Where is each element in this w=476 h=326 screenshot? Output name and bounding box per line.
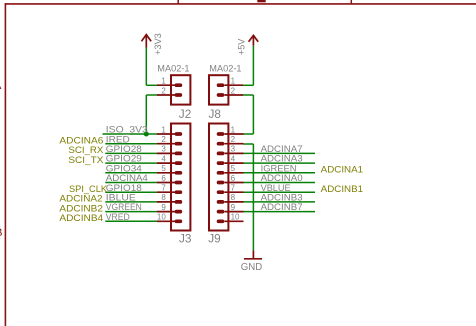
junction ISO_3V3 (144, 132, 149, 137)
svg-text:GPIO29: GPIO29 (106, 154, 142, 164)
svg-text:1: 1 (161, 77, 166, 86)
wire net ADCINB3 (243, 201, 315, 203)
pin 1 J8 pad (217, 83, 225, 87)
wire net ADCINA0 (243, 182, 315, 184)
svg-text:ADCINB1: ADCINB1 (321, 184, 363, 194)
pin 6 J3 pad (175, 181, 183, 185)
wire net ADCINA7 (243, 152, 315, 154)
wire ISO_3V3 vertical (145, 95, 147, 134)
wire J8 pin2 (243, 94, 253, 96)
svg-text:2: 2 (161, 86, 166, 95)
connector J8 body (209, 75, 228, 104)
svg-text:GPIO34: GPIO34 (106, 163, 142, 173)
svg-text:ADCINA0: ADCINA0 (261, 173, 303, 183)
svg-text:IBLUE: IBLUE (106, 193, 136, 203)
svg-text:+5V: +5V (236, 38, 246, 55)
pin 8 J9 pad (217, 200, 225, 204)
svg-text:2: 2 (231, 86, 236, 95)
wire net ADCINA3 (243, 162, 315, 164)
pin 5 J3 stub (157, 172, 175, 174)
svg-text:IGREEN: IGREEN (261, 163, 297, 173)
pin 4 J9 stub (224, 162, 243, 164)
pin 2 J8 pad (217, 93, 225, 97)
pin 4 J3 stub (157, 162, 175, 164)
svg-text:GPIO28: GPIO28 (106, 144, 142, 154)
pin 5 J9 stub (224, 172, 243, 174)
svg-text:B: B (0, 227, 2, 239)
pin 1 J3 pad (175, 132, 183, 136)
pin 1 J9 stub (224, 133, 243, 135)
pin 3 J3 pad (175, 152, 183, 156)
pin 7 J9 stub (224, 191, 243, 193)
svg-text:MA02-1: MA02-1 (157, 64, 189, 74)
svg-text:VGREEN: VGREEN (106, 202, 142, 212)
pin 8 J3 pad (175, 200, 183, 204)
connector J9 body (209, 124, 228, 231)
svg-text:8: 8 (161, 193, 166, 202)
wire +3V3 vertical (145, 48, 147, 86)
pin 2 J8 stub (224, 94, 243, 96)
pin 5 J9 pad (217, 171, 225, 175)
svg-text:1: 1 (231, 77, 236, 86)
pin 8 J3 stub (157, 201, 175, 203)
pin 1 J2 pad (175, 83, 183, 87)
pin 6 J9 pad (217, 181, 225, 185)
svg-text:10: 10 (157, 213, 166, 222)
wire net ADCINA4 (105, 182, 157, 184)
pin 2 J9 pad (217, 142, 225, 146)
pin 2 J3 pad (175, 142, 183, 146)
svg-text:ADCINA6: ADCINA6 (59, 135, 103, 145)
pin 3 J9 pad (217, 152, 225, 156)
pin 5 J3 pad (175, 171, 183, 175)
pin 4 J9 pad (217, 161, 225, 165)
svg-text:ADCINA3: ADCINA3 (261, 154, 303, 164)
svg-text:ADCINB4: ADCINB4 (59, 213, 103, 223)
svg-text:7: 7 (231, 184, 236, 193)
pin 2 J3 stub (157, 143, 175, 145)
pin 2 J2 stub (157, 94, 175, 96)
svg-text:ADCINA1: ADCINA1 (321, 165, 363, 175)
pin 1 J8 stub (224, 84, 243, 86)
frame left border line (4, 3, 6, 326)
wire net IRED (105, 143, 157, 145)
svg-text:ADCINB2: ADCINB2 (59, 203, 103, 213)
wire ISO_3V3 horizontal (103, 133, 158, 135)
frame top tick 2 (350, 0, 352, 4)
wire +5V to J8 pin1 (243, 84, 253, 86)
wire net GPIO29 (105, 162, 157, 164)
pin 7 J3 stub (157, 191, 175, 193)
svg-text:6: 6 (231, 174, 236, 183)
svg-text:J8: J8 (209, 107, 222, 121)
svg-text:ADCINA4: ADCINA4 (106, 173, 148, 183)
pin 6 J3 stub (157, 182, 175, 184)
svg-text:VBLUE: VBLUE (261, 183, 291, 193)
svg-text:5: 5 (231, 164, 236, 173)
pin 7 J9 pad (217, 190, 225, 194)
pin 2 J9 stub (224, 143, 243, 145)
svg-text:+3V3: +3V3 (153, 33, 163, 55)
pin 9 J9 pad (217, 210, 225, 214)
pin 1 J9 pad (217, 132, 225, 136)
svg-text:3: 3 (231, 145, 236, 154)
svg-text:J9: J9 (208, 231, 220, 245)
wire net ADCINB7 (243, 211, 315, 213)
svg-text:J3: J3 (179, 231, 192, 245)
svg-text:5: 5 (161, 164, 166, 173)
svg-text:SCI_RX: SCI_RX (68, 145, 103, 155)
svg-text:ADCINA7: ADCINA7 (261, 144, 303, 154)
supply symbol +5V arrow (249, 35, 259, 45)
pin 9 J3 pad (175, 210, 183, 214)
pin 1 J3 stub (157, 133, 175, 135)
frame top tick 1 (177, 0, 179, 4)
svg-text:7: 7 (161, 184, 166, 193)
connector J3 body (171, 124, 190, 231)
svg-text:4: 4 (231, 154, 236, 163)
svg-text:MA02-1: MA02-1 (209, 64, 241, 74)
svg-text:6: 6 (161, 174, 166, 183)
svg-text:GPIO18: GPIO18 (106, 183, 142, 193)
wire net IGREEN (243, 172, 315, 174)
pin 6 J9 stub (224, 182, 243, 184)
svg-text:ADCINA2: ADCINA2 (59, 194, 102, 204)
pin 9 J3 stub (157, 211, 175, 213)
wire J2 pin2 (146, 94, 157, 96)
svg-text:J2: J2 (179, 107, 191, 121)
pin 8 J9 stub (224, 201, 243, 203)
svg-text:1: 1 (231, 125, 236, 134)
wire net VBLUE (243, 191, 315, 193)
pin 3 J9 stub (224, 152, 243, 154)
svg-text:SPI_CLK: SPI_CLK (69, 184, 108, 194)
svg-text:3: 3 (161, 145, 166, 154)
wire net VRED (105, 220, 157, 222)
pin 2 J2 pad (175, 93, 183, 97)
connector J2 body (171, 75, 190, 104)
pin 1 J2 stub (157, 84, 175, 86)
wire net GPIO34 (105, 172, 157, 174)
ground symbol GND (244, 250, 262, 258)
svg-text:1: 1 (161, 125, 166, 134)
wire +5V down vertical (252, 95, 254, 134)
wire GND vertical (252, 144, 254, 250)
pin 4 J3 pad (175, 161, 183, 165)
pin 10 J3 stub (157, 220, 175, 222)
wire +5V vertical (252, 46, 254, 86)
svg-text:VRED: VRED (106, 212, 130, 222)
pin 10 J3 pad (175, 219, 183, 223)
svg-text:9: 9 (161, 203, 166, 212)
svg-text:9: 9 (231, 203, 236, 212)
pin 7 J3 pad (175, 190, 183, 194)
pin 10 J9 stub (224, 220, 243, 222)
pin 10 J9 pad (217, 219, 225, 223)
frame top text fragment (257, 0, 265, 2)
svg-text:GND: GND (241, 262, 263, 273)
wire to J9 pin1 (243, 133, 253, 135)
wire net GPIO18 (105, 191, 157, 193)
svg-text:4: 4 (161, 154, 166, 163)
wire J9 pin2 (243, 143, 253, 145)
wire net GPIO28 (105, 152, 157, 154)
svg-text:8: 8 (231, 193, 236, 202)
svg-text:ISO_3V3: ISO_3V3 (106, 125, 148, 135)
svg-text:ADCINB3: ADCINB3 (261, 193, 303, 203)
wire +3V3 to J2 pin1 (146, 84, 157, 86)
svg-text:10: 10 (231, 213, 240, 222)
svg-text:2: 2 (231, 135, 236, 144)
wire net VGREEN (105, 211, 157, 213)
pin 3 J3 stub (157, 152, 175, 154)
svg-text:ADCINB7: ADCINB7 (261, 202, 303, 212)
pin 9 J9 stub (224, 211, 243, 213)
svg-text:SCI_TX: SCI_TX (68, 155, 103, 165)
wire net IBLUE (105, 201, 157, 203)
svg-text:2: 2 (161, 135, 166, 144)
frame top border line (5, 3, 476, 5)
supply symbol +3V3 arrow (142, 34, 152, 47)
svg-text:IRED: IRED (106, 134, 130, 144)
